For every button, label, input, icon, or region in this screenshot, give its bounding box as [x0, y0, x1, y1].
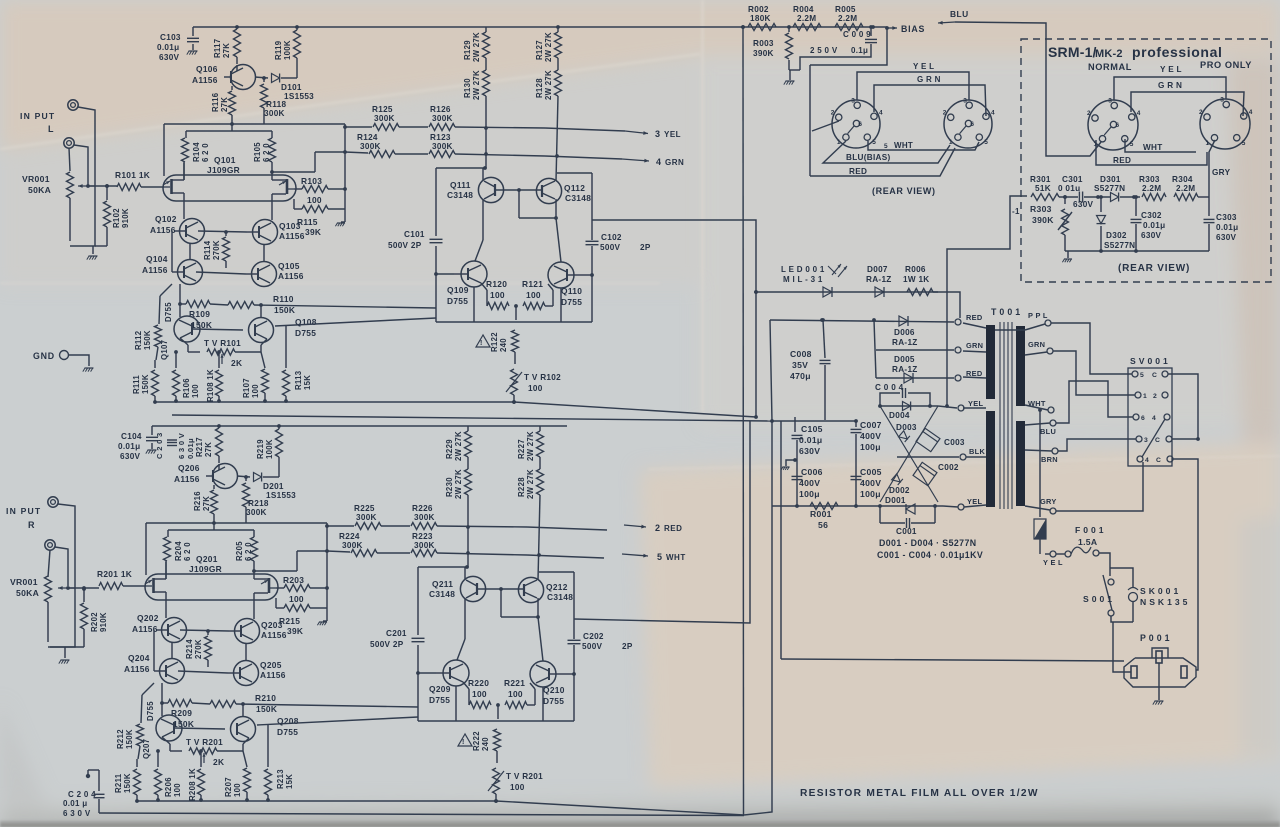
svg-text:C008: C008: [790, 349, 812, 359]
wire q104 q105: [178, 671, 228, 673]
capacitor C303: [1208, 197, 1210, 216]
svg-text:R202: R202: [90, 612, 99, 632]
svg-text:2: 2: [1087, 110, 1091, 117]
svg-text:100: 100: [289, 594, 304, 604]
svg-text:R303: R303: [1139, 175, 1160, 184]
svg-text:MK-2: MK-2: [1095, 48, 1123, 60]
resistor R204: [167, 530, 169, 537]
svg-text:R203: R203: [283, 575, 304, 585]
svg-text:Q203: Q203: [261, 620, 283, 630]
svg-text:-1: -1: [1012, 207, 1020, 216]
svg-text:240: 240: [499, 338, 508, 352]
resistor R209: [162, 702, 168, 704]
wire plug right: [1196, 621, 1198, 670]
svg-text:Q105: Q105: [278, 261, 300, 271]
svg-text:R104: R104: [192, 142, 201, 162]
wire GRY: [1209, 140, 1215, 197]
svg-text:0.01μ: 0.01μ: [799, 435, 822, 445]
svg-text:BRN: BRN: [1041, 455, 1058, 464]
svg-text:SRM-1/: SRM-1/: [1048, 44, 1097, 60]
svg-text:R214: R214: [185, 639, 194, 659]
svg-text:27K: 27K: [220, 97, 229, 112]
diode D003 sym: [899, 431, 910, 442]
svg-text:4: 4: [656, 157, 661, 167]
warning mark: [458, 734, 472, 746]
svg-text:S V 0 0 1: S V 0 0 1: [1130, 356, 1168, 366]
transistor Q202: [162, 618, 187, 643]
wire input R: [50, 504, 75, 647]
svg-text:R005: R005: [835, 5, 856, 14]
resistor R210: [192, 703, 210, 704]
svg-text:Q206: Q206: [178, 463, 200, 473]
svg-text:910K: 910K: [121, 208, 130, 228]
svg-text:2.2M: 2.2M: [1176, 184, 1195, 193]
svg-text:R113: R113: [294, 370, 303, 390]
wire right cage: [326, 523, 328, 621]
svg-text:D755: D755: [164, 302, 173, 322]
resistor R103: [294, 188, 302, 190]
svg-text:2: 2: [1199, 109, 1203, 116]
svg-text:D001 - D004 · S5277N: D001 - D004 · S5277N: [879, 538, 977, 548]
input jack R1: [48, 497, 58, 507]
transistor Q105: [252, 262, 277, 287]
svg-text:R207: R207: [224, 777, 233, 797]
svg-text:G R N: G R N: [1158, 81, 1182, 90]
jfet pair Q201: [145, 574, 278, 600]
resistor R303b: [1142, 194, 1166, 201]
capacitor C004: [880, 393, 900, 406]
wire q104 q105: [196, 272, 246, 274]
wire q107 q108: [179, 284, 181, 317]
svg-text:R130: R130: [463, 78, 472, 98]
resistor R110: [210, 304, 228, 305]
svg-text:R229: R229: [445, 439, 454, 459]
svg-text:R206: R206: [164, 777, 173, 797]
svg-text:R117: R117: [213, 39, 222, 58]
svg-text:YEL: YEL: [967, 497, 982, 506]
svg-text:S5277N: S5277N: [1104, 241, 1135, 250]
resistor R118: [263, 78, 265, 82]
resistor R217: [216, 428, 223, 456]
transistor Q204: [160, 659, 185, 684]
svg-text:2K: 2K: [213, 757, 224, 767]
svg-text:S5277N: S5277N: [1094, 184, 1125, 193]
transistor Q112: [536, 178, 561, 203]
svg-text:Y E L: Y E L: [913, 62, 934, 71]
svg-text:910K: 910K: [99, 612, 108, 632]
ground input R: [48, 646, 84, 648]
resistor R111: [154, 360, 156, 368]
transistor Q106: [231, 65, 256, 90]
wire top rail: [193, 26, 743, 28]
svg-text:R303: R303: [1030, 204, 1052, 214]
wire bias down: [810, 28, 887, 65]
svg-text:G R N: G R N: [917, 75, 941, 84]
resistor R119: [294, 30, 301, 58]
transistor Q209: [443, 660, 469, 686]
svg-text:2.2M: 2.2M: [1142, 184, 1161, 193]
wire output bottom: [418, 672, 436, 674]
svg-text:D755: D755: [295, 328, 316, 338]
svg-text:Q111: Q111: [450, 180, 471, 190]
svg-text:D003: D003: [896, 423, 917, 432]
resistor R207: [243, 751, 247, 767]
socket SK001: [1110, 568, 1133, 588]
svg-text:R223: R223: [412, 532, 433, 541]
wire cage: [146, 522, 327, 524]
svg-text:6: 6: [970, 121, 974, 128]
svg-text:Y E L: Y E L: [1160, 65, 1182, 74]
wire R output: [574, 421, 750, 623]
svg-text:R: R: [28, 520, 35, 530]
svg-text:150K: 150K: [125, 729, 134, 749]
wire gry to sv001: [1056, 462, 1143, 511]
wire sv001 right loop: [1168, 374, 1198, 439]
svg-text:R002: R002: [748, 5, 769, 14]
wire plug left: [781, 659, 1124, 661]
svg-text:100μ: 100μ: [860, 442, 881, 452]
terminal GRN sec: [1047, 348, 1053, 354]
wire input L: [70, 107, 95, 246]
svg-text:Q210: Q210: [543, 685, 565, 695]
svg-text:2: 2: [1153, 393, 1157, 400]
svg-text:R227: R227: [517, 439, 526, 459]
capacitor C302: [1135, 197, 1137, 216]
svg-text:R224: R224: [339, 532, 360, 541]
resistor R214: [207, 631, 209, 635]
svg-text:C002: C002: [938, 463, 959, 472]
capacitor C001: [880, 522, 905, 524]
svg-text:R006: R006: [905, 265, 926, 274]
transistor Q107: [174, 316, 200, 342]
svg-text:39K: 39K: [287, 626, 303, 636]
switch S001: [1109, 568, 1111, 576]
resistor R006: [907, 289, 933, 296]
svg-text:6: 6: [858, 121, 862, 128]
svg-text:C003: C003: [944, 438, 965, 447]
wire grn to sv001: [1053, 351, 1135, 395]
arrow BIAS: [887, 27, 897, 29]
resistor R213: [267, 725, 269, 767]
potentiometer R303: [1064, 197, 1066, 204]
svg-text:J109GR: J109GR: [207, 165, 240, 175]
svg-text:R126: R126: [430, 105, 451, 114]
svg-text:5: 5: [1130, 141, 1134, 148]
thermal fuse: [1034, 519, 1046, 539]
connector CN1 rear view: [832, 100, 880, 148]
svg-text:R208 1K: R208 1K: [188, 768, 197, 801]
svg-text:15K: 15K: [285, 774, 294, 789]
svg-text:BLU: BLU: [950, 9, 969, 19]
svg-text:Q109: Q109: [447, 285, 469, 295]
transistor Q108: [249, 318, 274, 343]
capacitor C201: [412, 637, 425, 639]
svg-text:630V: 630V: [1216, 233, 1237, 242]
svg-text:D755: D755: [543, 696, 564, 706]
svg-text:4: 4: [1249, 109, 1253, 116]
svg-text:R230: R230: [445, 477, 454, 497]
trimmer cap C002: [913, 462, 937, 485]
svg-text:100: 100: [191, 384, 200, 398]
svg-text:D302: D302: [1106, 231, 1127, 240]
transistor Q103: [253, 220, 278, 245]
svg-text:3: 3: [655, 129, 660, 139]
input jack L1: [68, 100, 78, 110]
svg-text:C3148: C3148: [547, 592, 573, 602]
svg-text:27K: 27K: [202, 496, 211, 511]
svg-text:BLK: BLK: [969, 447, 985, 456]
svg-text:2W 27K: 2W 27K: [544, 70, 553, 100]
svg-text:R304: R304: [1172, 175, 1193, 184]
svg-text:T V R101: T V R101: [204, 339, 241, 348]
potentiometer VR001 R: [45, 576, 52, 602]
svg-text:T V R201: T V R201: [186, 738, 223, 747]
resistor R216: [213, 485, 215, 489]
svg-text:300K: 300K: [414, 541, 435, 550]
wire frame right: [744, 320, 772, 815]
svg-text:27K: 27K: [222, 43, 231, 58]
resistor R223: [411, 550, 437, 557]
svg-text:R101 1K: R101 1K: [115, 170, 150, 180]
svg-text:R221: R221: [504, 678, 525, 688]
svg-text:R124: R124: [357, 133, 378, 142]
svg-text:R105: R105: [253, 142, 262, 162]
svg-text:R119: R119: [274, 40, 283, 60]
wire YEL link: [857, 72, 969, 100]
svg-text:100: 100: [526, 290, 541, 300]
resistor R116: [231, 86, 233, 90]
resistor R201: [99, 583, 123, 590]
svg-text:F 0 0 1: F 0 0 1: [1075, 525, 1104, 535]
svg-text:BLU(BIAS): BLU(BIAS): [846, 153, 891, 162]
svg-text:6 2 0: 6 2 0: [262, 143, 271, 162]
transistor Q203: [235, 619, 260, 644]
svg-text:100: 100: [251, 384, 260, 398]
svg-text:Q102: Q102: [155, 214, 177, 224]
svg-text:R111: R111: [132, 375, 141, 394]
svg-text:300K: 300K: [246, 508, 267, 517]
svg-text:RED: RED: [966, 313, 983, 322]
svg-text:R213: R213: [276, 769, 285, 789]
transformer T001 secondary: [1016, 326, 1025, 406]
svg-text:3: 3: [1220, 97, 1224, 104]
svg-text:3: 3: [851, 97, 855, 104]
svg-text:100: 100: [233, 783, 242, 797]
svg-text:3: 3: [1144, 437, 1148, 444]
svg-text:R201 1K: R201 1K: [97, 569, 132, 579]
resistor R228: [537, 469, 544, 495]
svg-text:500V 2P: 500V 2P: [370, 640, 404, 649]
svg-text:Q104: Q104: [146, 254, 168, 264]
svg-text:R216: R216: [193, 491, 202, 511]
svg-text:C303: C303: [1216, 213, 1237, 222]
resistor R114: [225, 232, 227, 236]
svg-text:100: 100: [508, 689, 523, 699]
diode D001: [879, 506, 881, 523]
wire wht tap down: [1039, 410, 1041, 517]
resistor R227: [539, 426, 541, 431]
svg-text:VR001: VR001: [10, 577, 38, 587]
resistor R113: [285, 326, 287, 368]
resistor R003: [788, 27, 790, 32]
resistor R005: [835, 24, 863, 31]
svg-text:C102: C102: [601, 233, 622, 242]
svg-text:100: 100: [307, 195, 322, 205]
resistor R122: [515, 306, 517, 320]
svg-text:D005: D005: [894, 355, 915, 364]
wire yel3: [943, 506, 958, 507]
resistor R126: [429, 124, 455, 131]
svg-text:6: 6: [1116, 122, 1120, 129]
svg-text:D755: D755: [561, 297, 582, 307]
svg-text:R226: R226: [412, 504, 433, 513]
svg-text:1W 1K: 1W 1K: [903, 275, 930, 284]
svg-text:5: 5: [884, 143, 888, 150]
svg-text:4: 4: [991, 109, 995, 116]
svg-text:2W 27K: 2W 27K: [544, 32, 553, 62]
svg-text:C104: C104: [121, 432, 142, 441]
transistor Q109: [461, 261, 487, 287]
transistor Q210: [530, 661, 556, 687]
wire bottom row: [772, 505, 943, 507]
resistor R219: [276, 429, 283, 457]
wire to R101: [88, 185, 117, 187]
resistor R101: [117, 184, 141, 191]
svg-text:D006: D006: [894, 328, 915, 337]
svg-text:180K: 180K: [750, 14, 771, 23]
transistor Q104: [178, 260, 203, 285]
svg-text:GRY: GRY: [1212, 168, 1231, 177]
ground input L: [95, 245, 107, 247]
svg-text:Q112: Q112: [564, 183, 585, 193]
fuse F001: [1065, 551, 1071, 557]
resistor R112: [160, 284, 172, 296]
svg-text:R110: R110: [273, 294, 294, 304]
resistor R104: [185, 131, 187, 138]
svg-text:2: 2: [943, 109, 947, 116]
svg-text:C: C: [1152, 372, 1157, 379]
svg-text:R225: R225: [354, 504, 375, 513]
svg-text:4: 4: [879, 109, 883, 116]
trimmer cap C003: [916, 428, 940, 451]
wire RED right: [1096, 140, 1207, 165]
svg-text:R004: R004: [793, 5, 814, 14]
svg-text:630V: 630V: [1141, 231, 1162, 240]
X bridge wires: [880, 406, 938, 502]
svg-text:400V: 400V: [860, 478, 881, 488]
wire q102 q103: [198, 231, 247, 232]
terminal YEL3: [958, 504, 964, 510]
terminal RED1: [955, 319, 961, 325]
svg-text:D755: D755: [146, 701, 155, 721]
capacitor C202: [568, 639, 581, 641]
resistor R004: [793, 24, 821, 31]
svg-text:2W 27K: 2W 27K: [526, 469, 535, 499]
svg-text:GRN: GRN: [1028, 340, 1045, 349]
svg-text:L: L: [48, 124, 54, 134]
svg-text:C302: C302: [1141, 211, 1162, 220]
svg-text:IN PUT: IN PUT: [6, 506, 41, 516]
wire YEL link right: [1114, 77, 1226, 100]
svg-text:2W 27K: 2W 27K: [472, 70, 481, 100]
wire box left entry: [947, 196, 1027, 406]
resistor R205: [253, 530, 255, 537]
resistor R002: [748, 24, 776, 31]
svg-text:R103: R103: [301, 176, 322, 186]
svg-text:R205: R205: [235, 541, 244, 561]
wire BLU to box: [955, 22, 1101, 156]
svg-text:C: C: [1156, 457, 1161, 464]
svg-text:5: 5: [872, 139, 876, 146]
svg-text:R129: R129: [463, 40, 472, 60]
resistor R115: [293, 199, 295, 209]
svg-text:D755: D755: [429, 695, 450, 705]
resistor R229: [467, 426, 469, 431]
resistor R206: [157, 751, 159, 767]
switch SV001 box: [1128, 368, 1172, 466]
svg-text:R106: R106: [182, 378, 191, 398]
input jack L2: [64, 138, 74, 148]
capacitor C007: [855, 421, 857, 427]
transistor Q206: [213, 464, 238, 489]
wire primary stubs: [963, 323, 986, 328]
svg-text:Q202: Q202: [137, 613, 159, 623]
resistor R304: [1174, 194, 1198, 201]
resistor R129: [485, 27, 487, 32]
wire sv001 row5 out: [1173, 459, 1198, 621]
svg-text:300K: 300K: [356, 513, 377, 522]
svg-text:PRO ONLY: PRO ONLY: [1200, 60, 1252, 70]
svg-text:R102: R102: [112, 208, 121, 228]
svg-text:R301: R301: [1030, 175, 1051, 184]
svg-text:A1156: A1156: [261, 630, 287, 640]
transistor Q207: [156, 715, 182, 741]
svg-text:R220: R220: [468, 678, 489, 688]
wire C008 bus2 link: [772, 420, 856, 422]
trimmer TVR201: [162, 737, 170, 744]
resistor R117: [234, 29, 241, 57]
svg-text:Q103: Q103: [279, 221, 301, 231]
svg-text:1: 1: [1206, 140, 1210, 147]
svg-text:R204: R204: [174, 541, 183, 561]
input jack R2: [45, 540, 55, 550]
wire output bottom: [436, 273, 454, 275]
wire rail2 stub: [272, 171, 315, 173]
svg-text:2W 27K: 2W 27K: [526, 431, 535, 461]
wire brn to sv001: [1058, 439, 1136, 451]
trimmer TVR102: [511, 369, 518, 395]
svg-text:35V: 35V: [792, 360, 808, 370]
svg-text:P P L: P P L: [1028, 311, 1048, 320]
transistor Q208: [231, 717, 256, 742]
wire BLU BIAS link: [809, 65, 811, 176]
svg-text:BIAS: BIAS: [901, 24, 925, 34]
jfet pair Q101: [163, 175, 296, 201]
capacitor C104: [151, 426, 153, 435]
resistor R226: [411, 523, 437, 530]
svg-text:0.01μ: 0.01μ: [186, 438, 195, 459]
resistor R125: [345, 126, 372, 128]
wire rail2 out: [527, 555, 604, 558]
svg-text:0 01u: 0 01u: [1058, 184, 1080, 193]
svg-text:(REAR VIEW): (REAR VIEW): [872, 186, 936, 196]
connector PRO: [1200, 99, 1250, 149]
svg-text:Q110: Q110: [561, 286, 582, 296]
svg-text:R122: R122: [490, 332, 499, 352]
transistor Q111: [478, 177, 503, 202]
svg-text:R217: R217: [195, 437, 204, 457]
wire q107 q108: [161, 683, 163, 716]
